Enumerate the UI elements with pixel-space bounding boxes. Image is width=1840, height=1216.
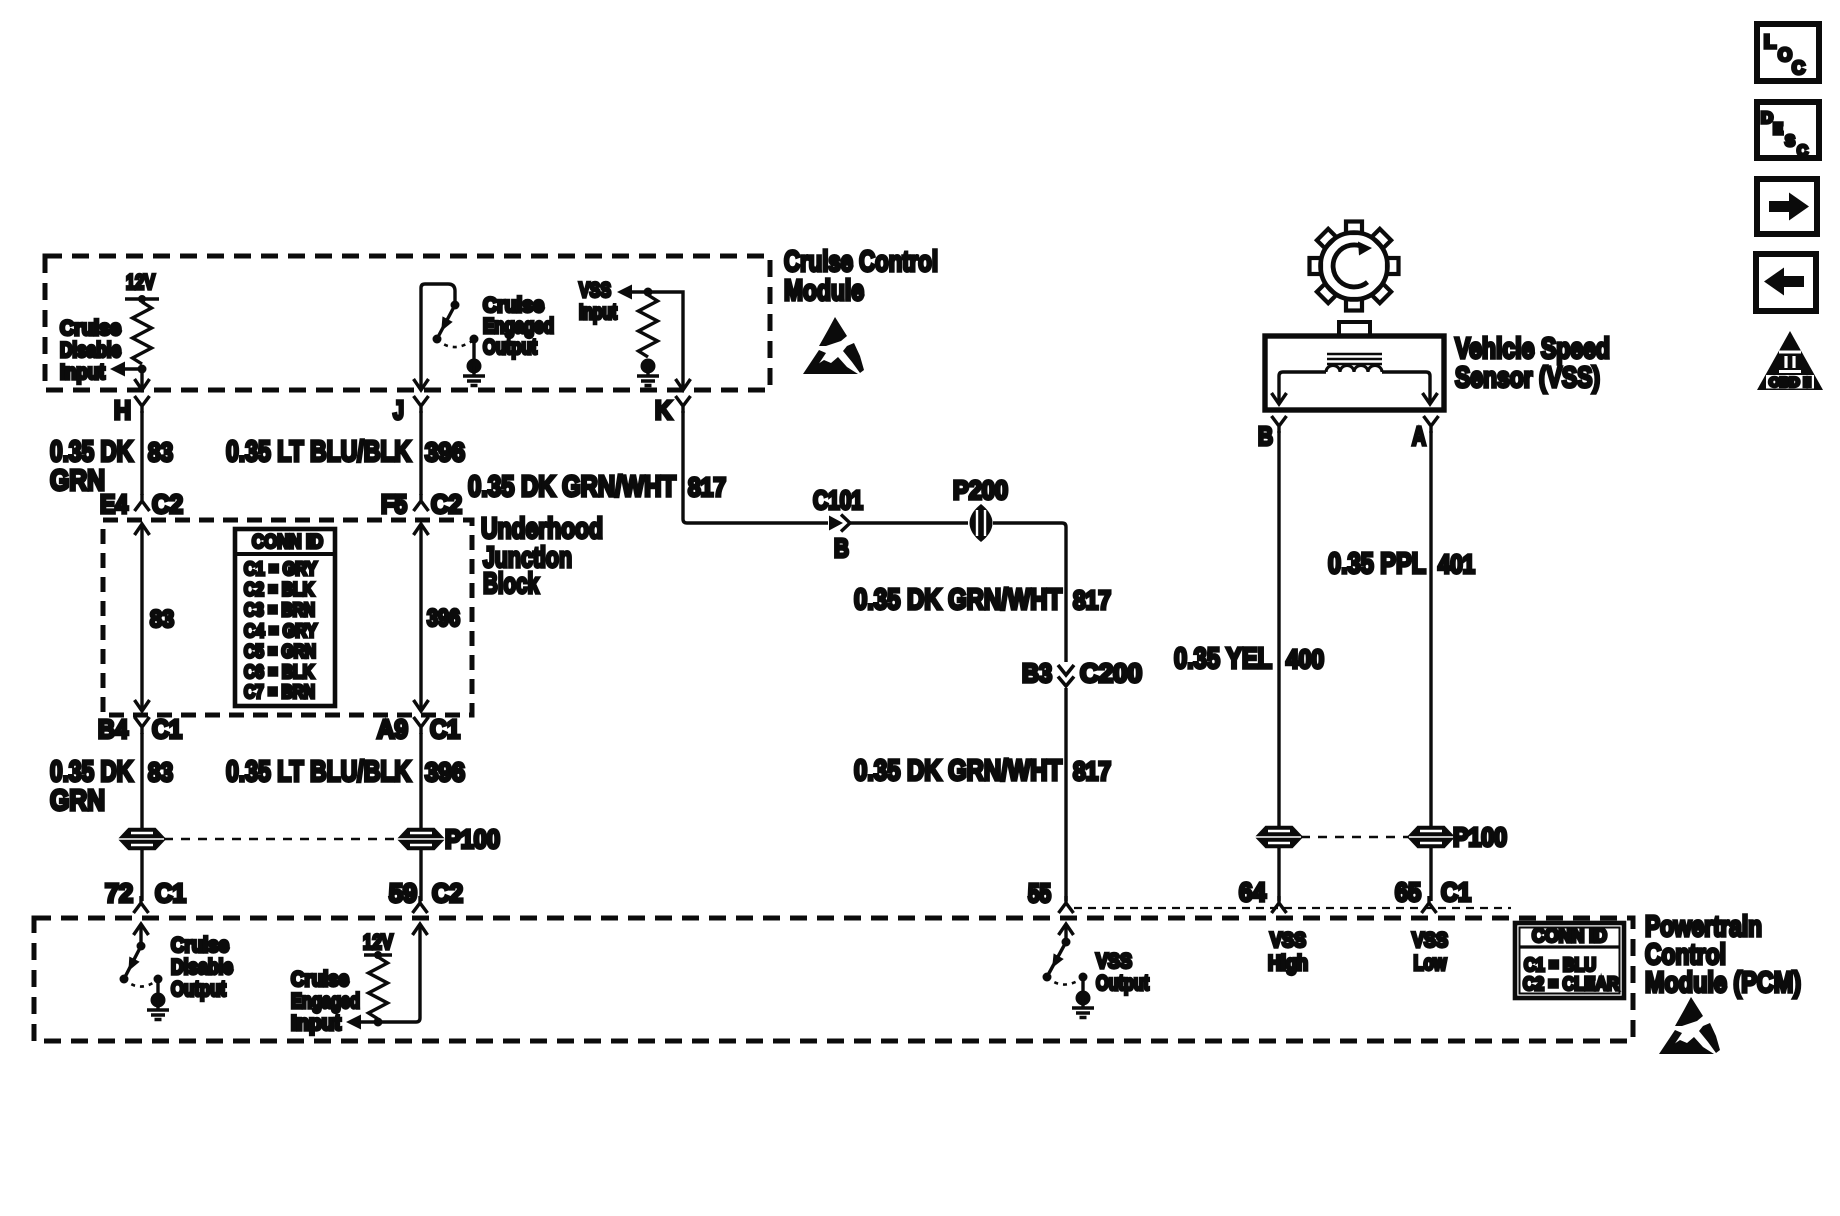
svg-text:C: C: [1797, 143, 1808, 160]
resistor (cruise engaged input pull-up): [369, 957, 388, 1019]
svg-text:E: E: [1773, 121, 1783, 138]
svg-text:OBD II: OBD II: [1769, 375, 1811, 390]
svg-text:B3: B3: [1022, 658, 1052, 688]
entry arrow 55: [1059, 924, 1074, 940]
signal arrow: VSS Input: [617, 285, 648, 300]
svg-text:0.35 LT BLU/BLK: 0.35 LT BLU/BLK: [226, 436, 411, 468]
ground (cruise engaged output switch): [463, 359, 485, 386]
reluctor gear icon: [1310, 222, 1399, 311]
svg-text:O: O: [1778, 45, 1792, 65]
dashed link P100 pair (left): [164, 838, 399, 841]
wire label 0.35 LT BLU/BLK 396 (lower): [226, 756, 465, 788]
svg-text:CONN ID: CONN ID: [1532, 925, 1607, 947]
module box: Underhood Junction Block: [103, 520, 472, 715]
svg-text:Cruise: Cruise: [60, 317, 121, 340]
svg-text:72: 72: [105, 878, 133, 908]
resistor (VSS input): [639, 295, 658, 357]
pin J: [393, 395, 429, 425]
pin B4 C1: [98, 714, 182, 744]
wire H inside module + exit arrow: [135, 369, 150, 390]
label Underhood Junction Block: [481, 513, 603, 600]
pin 72 C1: [105, 878, 186, 913]
svg-text:F5: F5: [381, 489, 407, 519]
wire 401 (A to 65): [1429, 431, 1432, 901]
svg-text:C2: C2: [432, 878, 463, 908]
svg-text:Cruise: Cruise: [291, 968, 349, 991]
pickup coil winding: [1326, 366, 1382, 373]
svg-text:D: D: [1761, 110, 1773, 127]
svg-text:GRN: GRN: [50, 785, 105, 817]
UJB internal wire 396: [414, 524, 461, 711]
svg-text:C1: C1: [152, 714, 182, 744]
svg-text:C3 = BRN: C3 = BRN: [244, 599, 315, 620]
svg-text:C1: C1: [155, 878, 186, 908]
svg-text:Module: Module: [784, 275, 864, 307]
pin E4 C2: [100, 489, 183, 519]
svg-text:83: 83: [148, 437, 173, 467]
pin 55: [1028, 878, 1074, 913]
pin 59 C2: [389, 878, 463, 913]
svg-text:Engaged: Engaged: [483, 315, 554, 338]
switch: VSS output: [1043, 938, 1088, 992]
CONN ID table (UJB): [235, 529, 335, 706]
12V supply label (cruise disable): [125, 271, 159, 303]
svg-text:C101: C101: [813, 485, 863, 515]
wire 817 (K to C101): [683, 411, 828, 523]
ESD symbol (PCM): [1659, 997, 1720, 1054]
label Powertrain Control Module (PCM): [1645, 911, 1801, 999]
icon back arrow: [1756, 254, 1816, 311]
svg-text:A: A: [1412, 421, 1426, 451]
svg-text:Vehicle Speed: Vehicle Speed: [1455, 333, 1610, 365]
svg-text:C6 = BLK: C6 = BLK: [244, 661, 315, 682]
svg-text:0.35 DK GRN/WHT: 0.35 DK GRN/WHT: [468, 471, 676, 503]
pin 64: [1239, 877, 1287, 913]
svg-text:K: K: [655, 395, 672, 425]
svg-text:C2: C2: [152, 489, 183, 519]
module box: Cruise Control Module: [45, 256, 770, 390]
grommet P100 (wire 396) + label: [400, 824, 500, 854]
ground (cruise disable output): [147, 993, 169, 1020]
grommet P100 (wire 83): [121, 828, 163, 850]
svg-text:817: 817: [688, 472, 726, 502]
connector bus dashed line (PCM pins): [1074, 907, 1511, 909]
pin H: [114, 395, 150, 425]
wire 83 (H to E4): [140, 411, 143, 495]
svg-text:396: 396: [425, 757, 465, 787]
svg-text:Cruise: Cruise: [171, 934, 229, 957]
svg-text:VSS: VSS: [1412, 929, 1448, 952]
svg-text:12V: 12V: [363, 931, 393, 954]
CONN ID table (PCM): [1515, 923, 1624, 998]
dashed link P100 pair (right): [1301, 836, 1409, 839]
wire 400 (B to 64): [1277, 431, 1280, 901]
in-line connector B3 C200: [1022, 658, 1142, 688]
svg-text:0.35 DK GRN/WHT: 0.35 DK GRN/WHT: [854, 755, 1062, 787]
svg-text:E4: E4: [100, 489, 128, 519]
svg-text:396: 396: [427, 605, 460, 632]
svg-text:Module (PCM): Module (PCM): [1645, 967, 1801, 999]
VSS sensor housing tab: [1339, 322, 1370, 336]
svg-text:0.35 DK GRN/WHT: 0.35 DK GRN/WHT: [854, 584, 1062, 616]
icon OBD II triangle: [1757, 331, 1823, 390]
svg-text:Input: Input: [60, 361, 105, 384]
svg-text:C200: C200: [1080, 658, 1142, 688]
icon LOC: [1757, 24, 1819, 81]
svg-text:C: C: [1792, 58, 1805, 78]
svg-text:C2 = CLEAR: C2 = CLEAR: [1523, 973, 1619, 994]
wire label 0.35 DK GRN/WHT 817 (middle): [854, 584, 1111, 616]
svg-text:Block: Block: [483, 568, 540, 600]
svg-text:400: 400: [1286, 644, 1324, 674]
svg-text:CONN ID: CONN ID: [252, 531, 323, 553]
svg-text:VSS: VSS: [579, 279, 611, 302]
label Cruise Disable Output: [171, 934, 233, 1001]
svg-text:65: 65: [1395, 877, 1421, 907]
ground (VSS input resistor): [637, 359, 659, 386]
wire label 0.35 DK GRN/WHT 817 (lower): [854, 755, 1111, 787]
wire label 0.35 DK GRN/WHT 817 (top): [468, 471, 726, 503]
svg-text:59: 59: [389, 878, 417, 908]
svg-text:817: 817: [1073, 585, 1111, 615]
pin F5 C2: [381, 489, 462, 519]
switch: cruise disable output: [120, 942, 163, 994]
label Cruise Engaged Input: [291, 968, 360, 1035]
entry arrow 72: [134, 924, 149, 944]
svg-text:Low: Low: [1414, 952, 1448, 975]
grommet P200: [953, 475, 1008, 542]
pin K: [655, 395, 691, 425]
pin B: [1258, 416, 1287, 451]
svg-text:C1: C1: [1441, 877, 1471, 907]
switch: cruise engaged output: [433, 301, 479, 360]
svg-text:C1: C1: [430, 714, 460, 744]
svg-text:83: 83: [150, 606, 174, 633]
svg-text:55: 55: [1028, 878, 1051, 908]
svg-text:0.35 YEL: 0.35 YEL: [1174, 643, 1272, 675]
node: cruise engaged input junction: [374, 1018, 383, 1027]
svg-text:C1 = GRY: C1 = GRY: [244, 558, 318, 579]
VSS sensor box: [1265, 336, 1444, 410]
wire label 0.35 PPL 401: [1328, 548, 1475, 580]
svg-text:Input: Input: [579, 301, 617, 324]
svg-text:B: B: [1258, 421, 1273, 451]
svg-text:401: 401: [1438, 549, 1475, 579]
wire 396 (A9 to 59): [419, 733, 422, 901]
pickup coil core lines: [1327, 354, 1382, 364]
svg-text:0.35 LT BLU/BLK: 0.35 LT BLU/BLK: [226, 756, 411, 788]
svg-text:396: 396: [425, 437, 465, 467]
pin A: [1412, 416, 1439, 451]
svg-text:817: 817: [1073, 756, 1111, 786]
svg-text:C1 = BLU: C1 = BLU: [1524, 954, 1596, 975]
wire label 0.35 YEL 400: [1174, 643, 1324, 675]
svg-text:64: 64: [1239, 877, 1267, 907]
svg-text:A9: A9: [377, 714, 408, 744]
pin 65 C1: [1395, 877, 1471, 913]
exit arrow K: [676, 379, 691, 390]
wire: switch feed (J): [421, 284, 455, 389]
svg-text:Cruise Control: Cruise Control: [784, 246, 938, 278]
svg-text:Input: Input: [291, 1012, 341, 1035]
svg-text:Output: Output: [171, 978, 226, 1001]
UJB internal wire 83: [135, 524, 175, 711]
grommet P100 (wire 400): [1258, 826, 1300, 848]
sensor internal wires to pins: [1272, 372, 1438, 404]
svg-text:Engaged: Engaged: [291, 990, 360, 1013]
wire label 0.35 LT BLU/BLK 396: [226, 436, 465, 468]
label VSS Input: [579, 279, 617, 324]
svg-text:P100: P100: [445, 824, 500, 854]
entry arrow 59 + wire: [380, 924, 428, 1022]
svg-text:83: 83: [148, 757, 173, 787]
svg-text:C7 = BRN: C7 = BRN: [244, 681, 315, 702]
label VSS Low: [1412, 929, 1448, 975]
wire 396 (J to F5): [419, 411, 422, 495]
12V supply label (cruise engaged): [363, 931, 393, 959]
resistor (cruise disable input pull-up): [133, 302, 152, 364]
svg-text:P100: P100: [1453, 822, 1507, 852]
svg-text:VSS: VSS: [1096, 950, 1132, 973]
svg-text:Output: Output: [483, 336, 537, 359]
exit arrow J: [414, 379, 429, 390]
svg-text:Underhood: Underhood: [481, 513, 603, 545]
svg-text:Disable: Disable: [60, 339, 121, 362]
svg-text:P200: P200: [953, 475, 1008, 505]
signal arrow: Cruise Disable Input: [110, 362, 142, 377]
svg-text:0.35 PPL: 0.35 PPL: [1328, 548, 1426, 580]
svg-text:H: H: [114, 395, 131, 425]
svg-text:VSS: VSS: [1270, 929, 1306, 952]
label Cruise Disable Input: [60, 317, 121, 384]
signal arrow: Cruise Engaged Input: [346, 1015, 378, 1030]
label Cruise Engaged Output: [483, 294, 554, 359]
svg-text:C5 = GRN: C5 = GRN: [244, 641, 316, 662]
svg-text:Cruise: Cruise: [483, 294, 544, 317]
svg-text:0.35 DK: 0.35 DK: [50, 436, 133, 468]
grommet P100 (wire 401) + label: [1410, 822, 1507, 852]
label VSS High: [1268, 929, 1308, 975]
wire label 0.35 DK GRN 83 (lower): [50, 756, 173, 817]
svg-text:J: J: [393, 395, 404, 425]
svg-text:C4 = GRY: C4 = GRY: [244, 620, 318, 641]
wire to K leg: [648, 292, 683, 388]
ESD symbol (Cruise Control Module): [803, 317, 864, 374]
node: cruise disable input junction: [138, 365, 147, 374]
icon DESC: [1757, 102, 1819, 160]
label VSS Output: [1096, 950, 1149, 995]
svg-text:Disable: Disable: [171, 956, 233, 979]
svg-text:C2: C2: [431, 489, 462, 519]
svg-text:B4: B4: [98, 714, 128, 744]
svg-text:12V: 12V: [126, 271, 155, 294]
icon forward arrow: [1757, 179, 1817, 234]
svg-text:Output: Output: [1096, 972, 1149, 995]
ground (VSS output): [1072, 991, 1094, 1018]
svg-text:0.35 DK: 0.35 DK: [50, 756, 133, 788]
in-line connector C101 pin B: [813, 485, 863, 563]
svg-text:Sensor (VSS): Sensor (VSS): [1455, 362, 1600, 394]
svg-text:GRN: GRN: [50, 465, 105, 497]
svg-text:High: High: [1268, 952, 1308, 975]
node: VSS input junction: [644, 288, 653, 297]
wire P200 down to pin 55: [993, 523, 1066, 901]
wire C101 to P200: [849, 521, 968, 524]
svg-text:C2 = BLK: C2 = BLK: [244, 579, 315, 600]
module box: Powertrain Control Module: [34, 918, 1633, 1041]
svg-text:S: S: [1785, 133, 1795, 150]
wire 83 (B4 to 72): [140, 733, 143, 901]
svg-text:B: B: [834, 533, 849, 563]
wire label 0.35 DK GRN 83: [50, 436, 173, 497]
pin A9 C1: [377, 714, 460, 744]
label Cruise Control Module: [784, 246, 938, 307]
label Vehicle Speed Sensor (VSS): [1455, 333, 1610, 394]
svg-text:L: L: [1764, 32, 1776, 52]
